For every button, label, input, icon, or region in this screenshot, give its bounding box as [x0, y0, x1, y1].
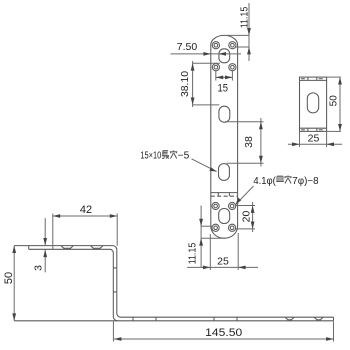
dim 38 — [225, 118, 264, 167]
dim 38.10 — [179, 61, 220, 107]
P2 slot hidden tick d — [316, 128, 318, 131]
svg-text:38.10: 38.10 — [179, 71, 191, 97]
bend line tick a — [217, 193, 219, 197]
svg-text:25: 25 — [217, 256, 229, 268]
countersink section mark B1 — [285, 317, 294, 320]
P2 hidden line bottom — [300, 127, 327, 129]
hole H3 countersunk — [212, 64, 219, 71]
P2 csk mark top-right — [319, 78, 323, 80]
hole H1 countersunk top-left — [212, 42, 219, 49]
hole H4 countersunk — [229, 64, 236, 71]
slot S1 top head — [219, 49, 230, 63]
P2 csk mark top-left — [301, 78, 305, 80]
svg-text:42: 42 — [80, 204, 92, 216]
slot S2 shaft upper — [219, 106, 230, 122]
label 15x10 slot leader — [192, 159, 217, 172]
slot S5 side view — [307, 93, 318, 113]
P2 slot hidden tick a — [307, 77, 309, 80]
kanji 穴 for label 15x10 — [170, 150, 177, 158]
plate P2 side view outline — [300, 77, 327, 131]
Z vertical tick a — [113, 267, 117, 269]
svg-text:145.50: 145.50 — [205, 327, 242, 339]
kanji 長 for label 15x10 — [162, 151, 169, 159]
svg-text:38: 38 — [243, 136, 255, 148]
svg-text:7.50: 7.50 — [177, 41, 198, 53]
bend line solid — [211, 192, 238, 194]
countersink section mark B2 — [314, 317, 323, 320]
P2 csk mark bottom-left — [301, 129, 305, 131]
hole H6 countersunk — [229, 202, 236, 209]
svg-text:20: 20 — [240, 211, 252, 223]
hole H5 countersunk bottom head — [212, 202, 219, 209]
dim 15 — [216, 71, 233, 95]
svg-text:−5: −5 — [178, 150, 190, 161]
kanji 穴 for label 4.1 — [284, 175, 291, 183]
svg-text:15: 15 — [218, 83, 229, 95]
dim 25 right — [288, 131, 342, 147]
dim 50 left — [3, 246, 16, 321]
base tick 2 — [155, 317, 157, 321]
label 4.1 text — [253, 176, 319, 187]
label 15x10 text — [140, 150, 189, 161]
svg-text:25: 25 — [308, 133, 320, 145]
dim 50 right — [327, 77, 342, 131]
svg-text:3: 3 — [33, 265, 45, 271]
base tick 4 — [236, 317, 238, 321]
Z bracket base bottom line — [14, 320, 333, 322]
kanji 皿 for label 4.1 — [276, 176, 284, 181]
Z bracket base right cap — [333, 317, 335, 321]
dim 25 plate — [187, 233, 258, 270]
svg-text:11.15: 11.15 — [187, 243, 199, 265]
dim 11.15 top — [226, 3, 251, 61]
svg-text:11.15: 11.15 — [238, 7, 250, 29]
hole H8 countersunk — [229, 224, 236, 231]
P2 slot hidden tick c — [307, 128, 309, 131]
Z bracket flange bottom line — [29, 249, 118, 320]
slot S4 bottom head — [219, 209, 230, 224]
svg-text:50: 50 — [328, 95, 339, 107]
P2 csk mark bottom-right — [319, 129, 323, 131]
svg-text:7φ)−8: 7φ)−8 — [292, 176, 319, 187]
Z vertical tick b — [113, 291, 117, 293]
base tick 1 — [132, 317, 134, 321]
dim 3 — [33, 218, 48, 272]
bend line hidden — [211, 195, 238, 197]
svg-text:50: 50 — [3, 272, 15, 284]
Z bracket flange top line — [14, 246, 333, 318]
countersink section mark F1 — [61, 246, 73, 250]
P2 hidden line top — [300, 79, 327, 81]
base tick 3 — [213, 317, 215, 321]
dim 11.15 bottom — [187, 206, 225, 268]
label 4.1 countersink leader — [236, 186, 254, 205]
dim 145.50 — [113, 321, 333, 341]
dim 7.50 — [171, 41, 242, 56]
countersink section mark F2 — [91, 246, 103, 250]
svg-text:15×10: 15×10 — [140, 150, 161, 161]
dim 20 — [236, 202, 255, 232]
bend line tick b — [228, 193, 230, 197]
Z bracket flange left cap — [28, 246, 30, 250]
svg-text:4.1φ(: 4.1φ( — [253, 176, 276, 187]
plate P1 front view outline — [211, 35, 238, 238]
hole H7 countersunk — [212, 224, 219, 231]
P2 slot hidden tick b — [316, 77, 318, 80]
hole H2 countersunk top-right — [229, 42, 236, 49]
dim 42 — [53, 204, 117, 249]
slot S3 shaft lower — [219, 164, 230, 181]
